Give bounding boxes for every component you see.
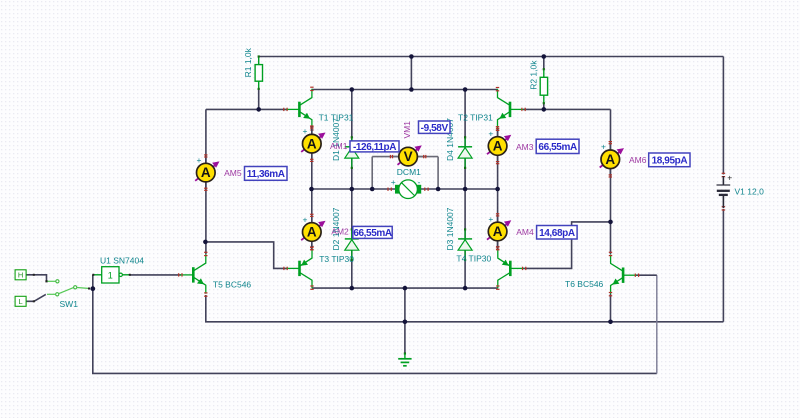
node ground bottom rail [403, 320, 408, 325]
wire voltmeter loop left [371, 157, 373, 189]
svg-text:+: + [727, 173, 732, 183]
svg-text:VM1: VM1 [402, 121, 412, 139]
node VM1 left [370, 187, 375, 192]
voltmeter VM1 [390, 142, 427, 166]
svg-text:D3 1N4007: D3 1N4007 [445, 207, 455, 250]
diode D4 [458, 136, 472, 169]
diode D1 [345, 136, 359, 169]
ground [398, 352, 411, 365]
wire H input lead [26, 275, 47, 281]
node T6 collector [608, 220, 613, 225]
node D4 collector rail [463, 87, 468, 92]
node R2 base rail [542, 107, 547, 112]
svg-text:U1 SN7404: U1 SN7404 [100, 255, 144, 265]
svg-text:DCM1: DCM1 [397, 167, 421, 177]
wire motor output rail [312, 188, 498, 190]
wire D4-D3 branch [464, 90, 466, 289]
transistor T1 [286, 89, 312, 128]
node VM1 right [436, 187, 441, 192]
wire center link vertical [410, 57, 412, 90]
wire R2 upper lead [543, 57, 545, 70]
value box AM4 [537, 226, 578, 240]
wire base rail left to T1 [206, 108, 287, 110]
ammeter AM2 [301, 214, 325, 251]
wire ground branch [404, 288, 406, 353]
svg-text:+: + [391, 177, 396, 187]
node switch common [90, 286, 95, 291]
svg-text:AM6: AM6 [629, 155, 647, 165]
node D1 collector rail [350, 87, 355, 92]
node R1 base rail [256, 107, 261, 112]
transistor T3 [286, 248, 312, 288]
ammeter AM3 [487, 128, 511, 165]
wire T5 collector link to T3 base [205, 242, 286, 269]
node R2 top rail [542, 54, 547, 59]
node D2 lower rail [350, 286, 355, 291]
wire T6 base lead [636, 274, 657, 276]
svg-text:D1 1N4007: D1 1N4007 [331, 118, 341, 161]
battery V1 [717, 173, 733, 211]
wire D1-D2 branch [351, 90, 353, 289]
node AM3 output rail [495, 187, 500, 192]
pin marks T4 [496, 246, 526, 290]
wire lower rail T3-T4 [312, 287, 498, 289]
node center link top [409, 54, 414, 59]
wire emitter bottom rail [206, 295, 724, 322]
svg-text:AM1: AM1 [330, 141, 348, 151]
svg-text:R1 1,0k: R1 1,0k [243, 47, 253, 77]
svg-text:T3 TIP30: T3 TIP30 [319, 254, 354, 264]
svg-text:66,55mA: 66,55mA [538, 142, 577, 153]
wire voltmeter loop top [372, 156, 438, 158]
ammeter AM6 [600, 141, 624, 178]
wire R1 lower lead [258, 89, 260, 110]
wire AM3-AM4 branch [497, 128, 499, 248]
value box AM2 [353, 226, 392, 239]
wire battery top drop [722, 57, 724, 175]
wire U1 output to T5 base [130, 274, 182, 276]
svg-text:SW1: SW1 [60, 299, 79, 309]
node D4 output rail [463, 187, 468, 192]
node center link bottom [409, 87, 414, 92]
svg-text:-126,11pA: -126,11pA [353, 142, 396, 153]
svg-text:R2 1,0k: R2 1,0k [528, 60, 538, 90]
transistor T6 [611, 255, 637, 294]
wire battery negative drop [722, 209, 724, 322]
logic gate U1 [92, 267, 131, 283]
svg-text:11,36mA: 11,36mA [247, 169, 285, 180]
motor DCM1 [387, 177, 428, 199]
pin marks T2 [496, 87, 526, 131]
svg-text:-: - [418, 177, 421, 187]
svg-text:14,68pA: 14,68pA [539, 228, 575, 239]
svg-text:66,55mA: 66,55mA [353, 228, 392, 239]
svg-text:T2 TIP31: T2 TIP31 [458, 113, 493, 123]
wire voltmeter loop right [437, 157, 439, 189]
svg-text:18,95pA: 18,95pA [652, 156, 688, 167]
switch SW1 input box H [15, 270, 35, 280]
wire AM1-AM2 branch [311, 128, 313, 248]
wire T6 collector link to T4 base [523, 222, 611, 269]
node T6 emitter rail [608, 320, 613, 325]
svg-text:T4 TIP30: T4 TIP30 [456, 254, 491, 264]
ammeter AM5 [195, 154, 219, 191]
svg-text:H: H [18, 271, 23, 280]
wire feedback bottom rail [93, 275, 657, 374]
wire AM5 branch [205, 109, 207, 254]
value box AM6 [649, 153, 690, 167]
wire top supply rail [259, 56, 724, 58]
pin marks T1 [283, 87, 313, 131]
value box AM5 [245, 167, 288, 181]
transistor T5 [180, 254, 206, 293]
value box AM1 [350, 141, 399, 153]
node AM1 output rail [309, 187, 314, 192]
svg-text:1: 1 [108, 271, 113, 281]
svg-text:L: L [19, 297, 23, 306]
node D3 lower rail [463, 286, 468, 291]
diode D3 [458, 228, 472, 261]
transistor T2 [498, 89, 524, 128]
svg-text:T6 BC546: T6 BC546 [565, 279, 604, 289]
ammeter AM1 [301, 125, 325, 162]
wire base rail T2 to AM6 branch [523, 108, 611, 110]
resistor R2 [540, 68, 547, 104]
wire R2 lower lead [543, 103, 545, 109]
node ground lower rail [403, 286, 408, 291]
node T5 collector [203, 240, 208, 245]
wire T6 base drop [656, 275, 658, 373]
wire T6 emitter drop [610, 294, 612, 322]
pin marks T6 [609, 252, 639, 297]
wire collector rail T1-T2 [312, 89, 498, 91]
transistor T4 [498, 248, 524, 288]
switch SW1 input box L [15, 296, 35, 306]
value box AM3 [536, 139, 579, 153]
node D1 output rail [350, 187, 355, 192]
ammeter AM4 [487, 213, 511, 250]
svg-text:V1 12,0: V1 12,0 [735, 186, 765, 196]
value box VM1 [419, 121, 451, 134]
svg-text:T5 BC546: T5 BC546 [213, 280, 252, 290]
svg-text:-9,58V: -9,58V [421, 123, 449, 134]
pin marks T3 [283, 246, 313, 290]
svg-text:AM2: AM2 [331, 227, 349, 237]
resistor R1 [255, 55, 262, 90]
svg-text:AM4: AM4 [516, 227, 534, 237]
svg-text:AM5: AM5 [224, 168, 242, 178]
svg-text:AM3: AM3 [516, 142, 534, 152]
wire AM6 branch [610, 109, 612, 254]
pin marks T5 [178, 252, 207, 297]
diode D2 [345, 228, 359, 261]
switch SW1 contacts and lever [45, 280, 90, 296]
wire L input lead [26, 294, 46, 301]
